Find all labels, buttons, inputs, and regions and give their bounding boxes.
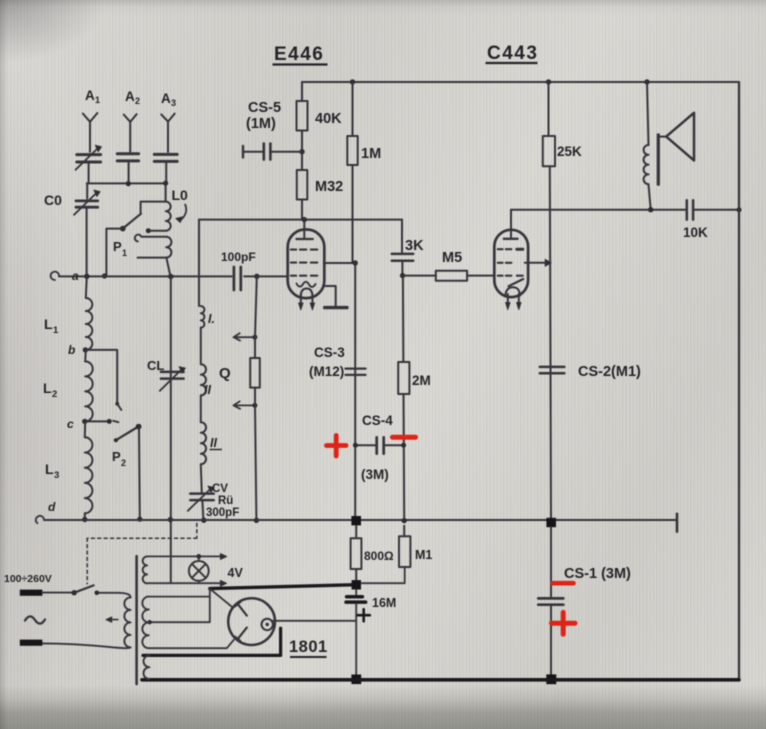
svg-text:C443: C443	[487, 43, 538, 64]
C443 anode bar	[504, 238, 518, 240]
svg-text:c: c	[67, 417, 74, 431]
resistor 40K	[297, 101, 308, 131]
svg-text:I.: I.	[208, 312, 215, 326]
svg-text:P: P	[113, 239, 122, 254]
svg-text:L: L	[43, 380, 52, 396]
svg-text:M32: M32	[315, 179, 343, 195]
node: P2 on bus	[137, 517, 142, 522]
node: anode / 1M junction	[353, 260, 358, 265]
wire: C443 anode to 25K line with arrow	[525, 262, 546, 264]
wire: B+ takeoff to filament winding	[149, 589, 210, 623]
transformer secondary: lamp winding	[143, 556, 148, 583]
red polarity + at CS-1	[552, 612, 576, 634]
svg-text:Q: Q	[219, 365, 231, 382]
svg-text:P: P	[112, 449, 121, 464]
svg-text:2M: 2M	[412, 373, 431, 388]
svg-text:2: 2	[52, 389, 57, 400]
svg-text:10K: 10K	[683, 225, 708, 240]
primary tap arrow	[111, 619, 117, 621]
wire: HT supply top rail	[302, 81, 739, 83]
capacitor 100pF	[233, 267, 236, 290]
wire: filament winding top lead	[149, 596, 210, 598]
capacitor CS-2 (M1) on line	[540, 366, 565, 369]
svg-text:C0: C0	[44, 192, 62, 208]
node: grid-leak top junction	[254, 274, 259, 279]
E446 grid dashes row 1	[291, 249, 318, 251]
capacitor 16M electrolytic	[355, 589, 357, 595]
node: grid leak on bus	[254, 518, 259, 523]
svg-text:40K: 40K	[315, 111, 342, 127]
E446 heater arch	[301, 289, 313, 297]
inductor I	[201, 306, 205, 328]
svg-text:300pF: 300pF	[206, 507, 239, 519]
wire: heater lead with arrow	[147, 555, 220, 557]
E446 anode bar	[297, 238, 313, 240]
svg-text:A: A	[85, 88, 95, 103]
transformer primary winding	[124, 597, 130, 647]
svg-text:(1M): (1M)	[246, 116, 276, 132]
svg-text:3: 3	[171, 98, 176, 108]
node: E446 top-cap junction	[302, 217, 307, 222]
1801 filament strokes	[238, 604, 247, 639]
wire: E446 anode to 1M line	[324, 262, 356, 264]
dial lamp 4V	[189, 561, 209, 581]
svg-text:CS-5: CS-5	[248, 100, 281, 116]
node: lamp top junction	[196, 554, 201, 559]
capacitor 3K	[392, 253, 413, 256]
svg-text:II: II	[204, 383, 211, 397]
svg-text:L: L	[45, 461, 54, 477]
capacitor A1 trimmer	[77, 155, 101, 162]
wire: 2M line from junction to bus	[403, 276, 404, 520]
svg-text:4V: 4V	[228, 566, 244, 580]
wire: mains top to switch	[42, 592, 71, 594]
capacitor C0 trimmer	[86, 183, 88, 198]
E446 heater pins with arrows	[301, 294, 313, 304]
svg-text:25K: 25K	[557, 144, 582, 159]
dashed gang linkage	[87, 523, 197, 583]
red polarity + at CS-4	[327, 436, 347, 457]
loudspeaker	[647, 82, 649, 145]
wire: right edge vertical	[738, 82, 740, 678]
svg-text:L: L	[44, 316, 53, 332]
resistor M1	[403, 526, 405, 536]
resistor 25K	[548, 82, 550, 136]
E446 grid dashes row 2	[291, 262, 318, 264]
svg-text:2: 2	[135, 96, 140, 106]
svg-text:CS-3: CS-3	[314, 345, 345, 360]
svg-text:100÷260V: 100÷260V	[4, 573, 52, 585]
resistor 2M	[398, 362, 409, 394]
svg-text:CV: CV	[212, 483, 228, 495]
capacitor CS-3 (M12) on line	[346, 367, 366, 369]
C443 heater pins with arrows	[508, 294, 519, 303]
wire: 1801 anode to 16M line	[273, 620, 356, 622]
E446 grid dashes row 3	[291, 275, 318, 277]
node: speaker to 10K line junction	[648, 207, 653, 212]
transformer core	[135, 556, 138, 684]
svg-text:b: b	[68, 343, 75, 357]
inductor II	[201, 364, 206, 395]
capacitor CS-4 (3M) link	[355, 444, 375, 446]
node: CL on bus	[168, 517, 173, 522]
svg-text:1801: 1801	[289, 638, 328, 656]
capacitor CS-1 (3M)	[550, 527, 552, 597]
switch P2	[116, 427, 138, 441]
switch P1	[120, 226, 126, 232]
polarity + of 16M	[358, 609, 370, 621]
node c	[82, 419, 87, 424]
inductor L0 tapped antenna coil	[165, 183, 167, 201]
red polarity - at CS-1	[553, 581, 574, 586]
node: A2 junction	[126, 181, 131, 186]
C443 cathode stroke	[509, 279, 524, 286]
transformer secondary: filament winding	[142, 597, 148, 649]
svg-text:CS-2(M1): CS-2(M1)	[578, 364, 641, 380]
capacitor A2	[117, 154, 138, 161]
node: CL top junction	[168, 274, 173, 279]
wire: B+ heavy line	[210, 585, 352, 589]
wire: primary bottom lead	[43, 643, 131, 648]
node: 2M on bus	[402, 518, 407, 523]
svg-text:16M: 16M	[372, 596, 396, 610]
1801 anode circle	[262, 619, 273, 630]
resistor M32	[297, 170, 308, 200]
svg-text:CL: CL	[147, 358, 164, 373]
svg-text:1: 1	[95, 95, 100, 105]
node: CS-5 / 40K / M32 junction	[299, 149, 304, 154]
wire: coil tap arrows to grid leak 1M	[234, 333, 255, 340]
antenna A2 symbol	[124, 114, 137, 122]
junction square: 800 ohm top	[351, 516, 361, 525]
antenna A3 symbol	[161, 114, 174, 122]
E446 cathode squiggle	[297, 282, 316, 287]
terminal: bus right end	[676, 514, 679, 532]
wire: anode line down via CS-3 to bus	[354, 263, 356, 516]
wire: filament winding bottom lead	[149, 640, 234, 648]
svg-text:3K: 3K	[405, 238, 424, 254]
wire: rail drop to 40K	[301, 82, 303, 101]
node: right rail junction	[737, 207, 742, 212]
resistor M5	[403, 275, 436, 277]
wire: HV winding heavy lead to anode	[143, 628, 281, 655]
svg-text:1M: 1M	[361, 146, 381, 162]
wire: bottom heavy bus	[142, 678, 739, 682]
wire: drop to tuned coil I	[198, 220, 200, 306]
svg-text:3: 3	[54, 470, 59, 481]
junction square: CS-1 bottom on bus	[546, 674, 556, 684]
node: 25K top junction	[546, 79, 551, 84]
wire: tap c to P2 contact	[85, 420, 109, 422]
svg-text:A: A	[125, 89, 135, 104]
inductor L2	[84, 350, 87, 361]
wire: node a bus	[59, 275, 232, 277]
wire: grid drop to 3K coupling cap	[401, 220, 403, 253]
capacitor CV Ru 300pF	[190, 494, 213, 501]
svg-text:Rü: Rü	[218, 495, 233, 507]
svg-text:d: d	[48, 500, 56, 514]
node b	[83, 347, 88, 352]
wire: C443 top cap line to 10K	[511, 209, 686, 211]
junction square: CS-1 top	[546, 518, 556, 527]
svg-text:M5: M5	[442, 250, 462, 266]
AC symbol	[25, 616, 45, 623]
mains terminal top	[20, 590, 43, 596]
capacitor CS-5 (1M) with input terminal	[242, 146, 244, 158]
svg-text:L0: L0	[172, 187, 189, 203]
svg-text:1: 1	[122, 248, 127, 258]
svg-text:1: 1	[53, 325, 59, 336]
svg-text:(3M): (3M)	[361, 467, 389, 482]
C443 grid dashes row 2	[498, 262, 512, 264]
inductor III	[201, 422, 206, 464]
wire: primary top lead from switch	[97, 593, 130, 598]
svg-text:E446: E446	[274, 44, 324, 65]
capacitor 10K	[686, 200, 689, 219]
resistor 1M grid leak	[255, 276, 257, 358]
resistor 800 ohm	[355, 525, 357, 538]
svg-text:100pF: 100pF	[221, 250, 256, 264]
node: CV on bus	[201, 518, 206, 523]
svg-text:CS-4: CS-4	[362, 413, 393, 428]
svg-text:800Ω: 800Ω	[364, 549, 394, 563]
C443 grid dashes row 3	[498, 275, 523, 277]
wire: antenna bus	[87, 182, 166, 184]
node a	[84, 274, 89, 279]
svg-text:a: a	[72, 269, 79, 283]
svg-text:II: II	[210, 436, 217, 450]
antenna A1 symbol	[83, 113, 98, 122]
op tube E446 envelope	[288, 230, 325, 299]
node: P1 on aerial bus	[102, 273, 107, 278]
ground (cathode bar)	[325, 306, 347, 309]
mains switch	[72, 590, 77, 595]
output tube C443 envelope	[494, 230, 528, 297]
inductor L1	[86, 276, 87, 298]
node: speaker branch junction	[644, 79, 649, 84]
E446 top-cap lead	[303, 220, 305, 239]
node: CS-4 right junction	[401, 443, 406, 448]
wire: 25K line down through CS-2 to bottom bus	[550, 166, 551, 518]
svg-text:CS-1 (3M): CS-1 (3M)	[564, 566, 631, 582]
L0 adjust arrow	[181, 205, 187, 221]
C443 top-cap lead	[510, 210, 512, 239]
resistor 1M (screen feed)	[352, 82, 354, 136]
junction square: B+ node	[352, 580, 361, 589]
wire: node d bus (thin bottom bus)	[44, 519, 677, 521]
node: 1M top junction	[350, 79, 355, 84]
C443 heater arch	[505, 287, 520, 296]
wire: tap b to P2 contact	[85, 350, 117, 404]
node: CS-4 left junction	[353, 443, 358, 448]
node: 3K / M5 / 2M junction	[400, 273, 405, 278]
wire: heater return lead with arrow	[147, 582, 220, 584]
svg-text:A: A	[161, 91, 171, 106]
wire: filament top diagonal	[210, 589, 231, 606]
rectifier tube 1801 envelope	[228, 598, 275, 645]
svg-text:(M12): (M12)	[309, 364, 344, 379]
capacitor CL line	[170, 277, 172, 583]
node: A3 / L0 junction	[163, 181, 168, 186]
inductor L3	[84, 421, 86, 437]
wire: grid line from coupling box to 3K cap	[199, 219, 402, 221]
node d	[82, 517, 87, 522]
wire: 40K to CS-5 junction	[301, 131, 303, 152]
junction square: negative rail node	[351, 675, 361, 685]
red polarity - at CS-4	[393, 435, 416, 440]
capacitor CL trimmer plates	[161, 372, 184, 379]
transformer secondary: HV winding	[144, 655, 150, 679]
C443 grid dashes row 1	[498, 248, 512, 250]
svg-text:M1: M1	[415, 548, 432, 562]
wire: E446 cathode lead	[324, 286, 336, 306]
capacitor A3	[154, 154, 177, 161]
svg-text:2: 2	[121, 458, 126, 468]
mains terminal bottom	[20, 640, 43, 646]
